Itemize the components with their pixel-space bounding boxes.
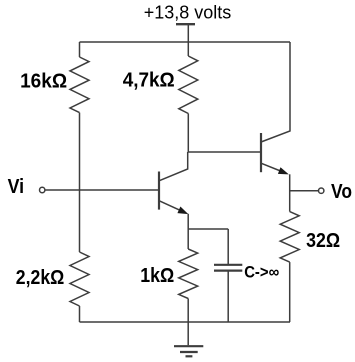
svg-text:16kΩ: 16kΩ [20,71,67,93]
svg-text:+13,8 volts: +13,8 volts [144,2,232,22]
svg-text:C->∞: C->∞ [244,263,279,282]
svg-text:2,2kΩ: 2,2kΩ [16,267,65,289]
svg-text:Vo: Vo [331,181,352,203]
svg-text:32Ω: 32Ω [306,230,340,252]
svg-text:1kΩ: 1kΩ [140,265,174,287]
svg-text:Vi: Vi [8,176,25,198]
svg-text:4,7kΩ: 4,7kΩ [123,70,175,92]
